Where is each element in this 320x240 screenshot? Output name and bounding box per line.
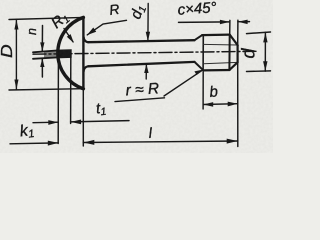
b arrow right-pointing xyxy=(228,102,238,107)
c arrow right-pointing xyxy=(220,20,230,25)
c dimension line right tail xyxy=(238,21,250,23)
shank top edge xyxy=(88,40,194,42)
D arrow up xyxy=(14,19,18,29)
c chamfer extension line right xyxy=(237,20,239,45)
b extension line left (thread start) xyxy=(202,72,204,109)
thread minor diameter top (thin) xyxy=(203,43,237,46)
t1 extension line (slot bottom) xyxy=(70,58,72,124)
end face xyxy=(237,45,239,62)
thread minor diameter bottom (thin) xyxy=(203,62,237,63)
D dimension line xyxy=(15,20,17,90)
n arrow bottom (up) xyxy=(41,58,43,77)
k1 dimension line left tail xyxy=(10,142,58,145)
scan paper texture xyxy=(0,0,1,1)
thread crest bottom xyxy=(203,69,229,72)
chamfer diagonal top xyxy=(230,35,238,46)
screwdriver slot (filled) xyxy=(58,50,71,58)
d1 arrow up to shank bottom xyxy=(145,64,147,79)
l arrow right-pointing xyxy=(227,139,238,144)
d extension line top xyxy=(247,32,271,34)
b dimension line xyxy=(203,103,238,106)
thread runout ramp bottom xyxy=(195,62,204,70)
thread runout ramp top xyxy=(195,35,203,40)
slot extension smear (scan darkening) xyxy=(44,50,58,58)
d arrow up xyxy=(263,32,267,42)
chamfer start circle line xyxy=(228,35,230,70)
t1 dimension line right tail xyxy=(71,121,129,122)
shank bottom edge xyxy=(88,62,194,66)
R arrowhead xyxy=(87,28,96,36)
r≈R arrowhead xyxy=(194,70,203,76)
R1 leader xyxy=(64,29,73,42)
chamfer diagonal bottom xyxy=(229,62,237,70)
d arrow down xyxy=(263,61,267,71)
r≈R leader xyxy=(164,70,203,96)
d1 arrow down to shank top xyxy=(147,4,149,41)
n extension line bottom xyxy=(33,57,58,58)
t1 arrow right-pointing xyxy=(48,120,58,125)
head crown arc R xyxy=(58,17,84,88)
head bearing face xyxy=(82,17,84,88)
c chamfer extension line left xyxy=(229,20,231,34)
k1 / l extension line (head face) xyxy=(82,89,84,146)
d extension line bottom xyxy=(247,70,271,73)
l extension line (end face) xyxy=(237,63,239,147)
fillet under head (top) xyxy=(84,37,89,42)
thread start line xyxy=(202,35,204,71)
t1 arrow left-pointing xyxy=(71,120,82,125)
R1 arrowhead xyxy=(67,34,74,43)
fillet under head (bottom) xyxy=(84,66,89,71)
b arrow left-pointing xyxy=(203,102,213,107)
l arrow left-pointing xyxy=(83,140,94,145)
D extension line bottom xyxy=(9,89,83,90)
D extension line top xyxy=(9,17,83,19)
r≈R underline xyxy=(115,98,165,102)
c dimension line left tail xyxy=(179,21,230,24)
n arrow top (down) xyxy=(41,26,43,52)
c arrow left-pointing xyxy=(238,20,248,25)
thread crest top xyxy=(202,33,230,36)
k1 arrow right-pointing xyxy=(48,141,59,146)
D arrow down xyxy=(14,80,18,90)
t1 dimension line left tail xyxy=(33,121,58,124)
centerline (axis, dash-dot) xyxy=(33,51,256,54)
d dimension line xyxy=(264,32,266,71)
R leader xyxy=(87,20,126,35)
n extension line top xyxy=(33,50,58,52)
t1 extension line (crown apex) xyxy=(57,59,59,144)
l dimension line xyxy=(83,141,237,143)
paper background xyxy=(0,0,273,153)
